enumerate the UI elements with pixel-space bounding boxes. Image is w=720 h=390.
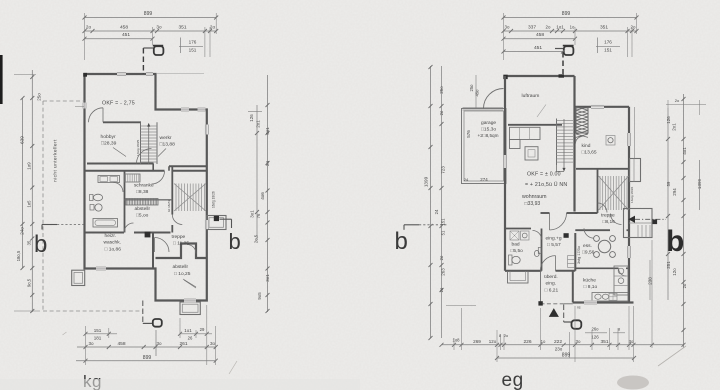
svg-text:126: 126: [249, 114, 254, 122]
svg-text:□ 5,57: □ 5,57: [547, 242, 561, 248]
svg-text:251: 251: [666, 261, 671, 269]
svg-text:1399: 1399: [424, 176, 429, 187]
svg-text:3o1: 3o1: [265, 274, 270, 282]
svg-text:269: 269: [473, 339, 481, 344]
svg-text:2o: 2o: [682, 283, 687, 288]
svg-text:351: 351: [178, 24, 186, 30]
svg-text:+2□8,5qm: +2□8,5qm: [478, 133, 499, 138]
svg-text:16stg 18/26: 16stg 18/26: [212, 191, 216, 208]
svg-text:176: 176: [604, 40, 612, 45]
svg-text:24: 24: [265, 161, 270, 166]
svg-text:hobbyr: hobbyr: [101, 134, 116, 140]
svg-text:51: 51: [441, 230, 446, 235]
svg-text:576: 576: [466, 130, 471, 138]
svg-text:899: 899: [143, 355, 152, 361]
svg-text:□ 1o,86: □ 1o,86: [105, 247, 122, 253]
svg-text:76: 76: [256, 213, 261, 218]
svg-text:abstellr: abstellr: [135, 206, 151, 212]
svg-text:brt 18o57: brt 18o57: [167, 199, 171, 212]
svg-text:küche: küche: [583, 278, 596, 284]
svg-text:b: b: [229, 229, 241, 254]
svg-text:14stg 18/25: 14stg 18/25: [136, 140, 140, 156]
svg-text:□ 11,25: □ 11,25: [173, 241, 189, 247]
svg-text:176: 176: [189, 40, 197, 45]
svg-text:351: 351: [600, 339, 608, 345]
svg-text:treppe: treppe: [601, 213, 615, 219]
svg-text:3o: 3o: [505, 24, 510, 29]
svg-text:24o: 24o: [20, 227, 25, 235]
svg-text:1o8: 1o8: [452, 338, 460, 343]
svg-text:luftraum: luftraum: [522, 93, 540, 99]
svg-text:151: 151: [189, 48, 197, 53]
svg-text:waschk.: waschk.: [104, 240, 122, 246]
svg-text:□33,93: □33,93: [525, 201, 541, 207]
svg-text:□5,oo: □5,oo: [136, 213, 149, 219]
svg-text:18o,5: 18o,5: [16, 250, 21, 261]
svg-text:9o,5: 9o,5: [27, 278, 32, 287]
svg-text:351: 351: [600, 24, 608, 30]
svg-text:3stg 17/3o: 3stg 17/3o: [577, 246, 581, 264]
svg-text:b: b: [34, 231, 47, 258]
svg-text:bad: bad: [512, 242, 520, 248]
svg-text:261: 261: [179, 341, 187, 347]
svg-text:2o: 2o: [439, 255, 444, 260]
svg-text:12o: 12o: [672, 268, 677, 276]
svg-text:□28,39: □28,39: [101, 141, 117, 147]
svg-text:3o: 3o: [576, 339, 581, 344]
svg-text:□ 6,21: □ 6,21: [545, 288, 559, 294]
svg-text:ess.: ess.: [583, 244, 592, 249]
svg-text:eing.: eing.: [546, 281, 557, 287]
svg-text:9o5: 9o5: [257, 292, 262, 300]
svg-text:schranke: schranke: [134, 183, 154, 189]
svg-text:458: 458: [120, 24, 128, 30]
svg-text:3o: 3o: [210, 341, 216, 346]
svg-text:1o5: 1o5: [27, 200, 32, 208]
svg-text:3o: 3o: [156, 24, 162, 29]
svg-text:16stg 18/26: 16stg 18/26: [630, 187, 634, 203]
svg-text:eing.+g: eing.+g: [546, 236, 562, 242]
svg-text:ns: ns: [577, 306, 581, 310]
svg-text:263: 263: [441, 268, 446, 276]
svg-text:12o: 12o: [489, 339, 497, 344]
svg-text:OKF = ± 0.00: OKF = ± 0.00: [527, 172, 561, 178]
svg-text:1o1: 1o1: [184, 328, 192, 333]
svg-text:garage: garage: [481, 120, 496, 126]
svg-text:639: 639: [20, 136, 25, 144]
svg-text:458: 458: [117, 341, 125, 347]
svg-text:899: 899: [562, 353, 571, 359]
svg-text:□13,88: □13,88: [160, 142, 176, 148]
svg-text:überd.: überd.: [544, 274, 558, 280]
svg-text:1o: 1o: [541, 339, 546, 344]
svg-text:4o6: 4o6: [260, 192, 265, 200]
svg-text:treppe: treppe: [172, 234, 186, 240]
svg-text:2o: 2o: [86, 24, 92, 29]
svg-text:25o: 25o: [469, 84, 474, 92]
svg-text:OKF = - 2,75: OKF = - 2,75: [102, 101, 135, 107]
svg-text:723: 723: [441, 166, 446, 174]
svg-text:nicht unterkellert: nicht unterkellert: [53, 139, 59, 182]
svg-text:35: 35: [27, 240, 32, 245]
svg-text:274: 274: [480, 177, 488, 182]
svg-text:□ 8,1o: □ 8,1o: [584, 284, 598, 290]
svg-text:59: 59: [666, 181, 671, 186]
svg-text:3o: 3o: [156, 341, 162, 346]
svg-text:b: b: [395, 228, 408, 255]
svg-text:2o: 2o: [439, 110, 444, 115]
svg-text:899: 899: [144, 11, 153, 17]
svg-text:899: 899: [562, 11, 571, 17]
svg-text:2o: 2o: [631, 24, 636, 29]
svg-text:eg: eg: [502, 370, 524, 390]
svg-text:181: 181: [94, 336, 102, 341]
svg-text:heizr.: heizr.: [105, 233, 117, 239]
svg-text:4o1: 4o1: [265, 127, 270, 135]
svg-text:2o,5: 2o,5: [254, 234, 259, 243]
svg-text:26o: 26o: [591, 327, 599, 332]
svg-text:451: 451: [122, 32, 130, 38]
svg-text:26: 26: [188, 336, 193, 341]
svg-text:werkr: werkr: [160, 135, 172, 141]
svg-text:3o1: 3o1: [250, 210, 255, 218]
svg-text:23o: 23o: [555, 347, 563, 352]
svg-text:24: 24: [434, 209, 439, 214]
svg-text:222: 222: [554, 339, 562, 345]
svg-text:151: 151: [604, 48, 612, 53]
svg-text:1o1: 1o1: [556, 24, 564, 29]
svg-text:□15,3o: □15,3o: [481, 127, 496, 133]
svg-text:126: 126: [591, 334, 599, 339]
svg-text:29: 29: [200, 327, 205, 332]
svg-text:3o: 3o: [88, 341, 94, 346]
svg-text:1o9: 1o9: [27, 162, 32, 170]
svg-text:24: 24: [464, 177, 469, 182]
svg-text:2o: 2o: [439, 287, 444, 292]
svg-text:= + 21o,5ü Ü NN: = + 21o,5ü Ü NN: [525, 181, 567, 188]
svg-text:25o: 25o: [439, 86, 444, 94]
svg-text:2o1: 2o1: [672, 123, 677, 131]
svg-text:□5,5o: □5,5o: [511, 248, 524, 254]
svg-text:1o: 1o: [570, 24, 575, 29]
svg-text:2o: 2o: [504, 334, 508, 338]
svg-text:□13,65: □13,65: [582, 150, 597, 156]
svg-text:458: 458: [536, 32, 544, 38]
svg-text:4o1: 4o1: [682, 147, 687, 155]
svg-text:□8,38: □8,38: [136, 189, 149, 195]
svg-text:45o: 45o: [475, 89, 480, 97]
svg-text:2o: 2o: [546, 24, 551, 29]
svg-text:151: 151: [441, 218, 446, 226]
svg-text:337: 337: [528, 24, 536, 30]
svg-text:151: 151: [94, 328, 102, 333]
svg-text:□9,56: □9,56: [582, 250, 595, 256]
svg-text:2o: 2o: [210, 24, 216, 29]
svg-text:□8,16: □8,16: [603, 219, 616, 225]
svg-text:451: 451: [534, 45, 542, 51]
svg-text:226: 226: [523, 339, 531, 345]
svg-text:2o1: 2o1: [256, 120, 261, 128]
svg-text:126: 126: [666, 116, 671, 124]
svg-text:3o: 3o: [629, 339, 634, 344]
svg-text:25o: 25o: [37, 93, 42, 101]
svg-text:wohnraum: wohnraum: [522, 194, 547, 200]
svg-text:kind: kind: [582, 143, 591, 149]
svg-text:□ 1o,25: □ 1o,25: [174, 271, 191, 277]
svg-text:abstellr: abstellr: [173, 264, 189, 270]
svg-text:294: 294: [672, 188, 677, 196]
svg-text:2o: 2o: [675, 98, 680, 103]
